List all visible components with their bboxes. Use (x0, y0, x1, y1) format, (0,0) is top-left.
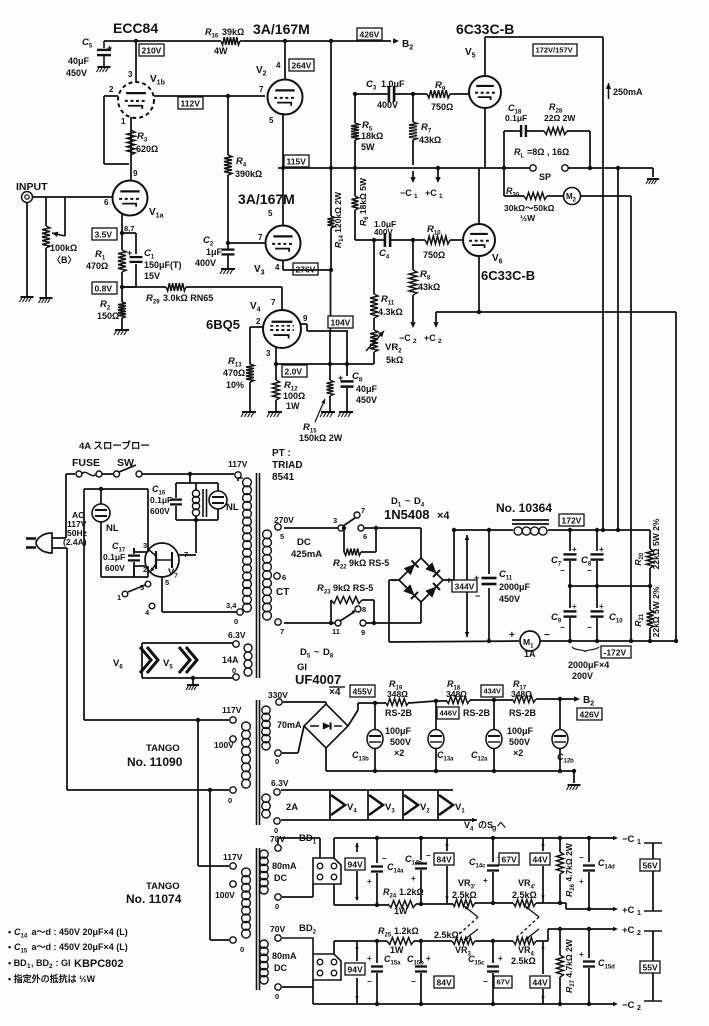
choke 10364 (512, 520, 549, 535)
svg-text:CT: CT (276, 587, 289, 598)
label C5 (66, 37, 93, 78)
svg-text:~: ~ (405, 496, 410, 506)
wire M2 right (581, 196, 632, 641)
svg-text:84V: 84V (437, 978, 452, 988)
svg-text:600V: 600V (150, 506, 170, 516)
label 4A slow-blow (79, 440, 150, 452)
wire V1b grid (104, 96, 129, 164)
svg-text:+: + (579, 877, 584, 886)
label R17 (511, 679, 532, 699)
svg-text:+C: +C (622, 925, 635, 936)
wire r1 bottom rail (334, 884, 388, 905)
svg-text:250mA: 250mA (613, 87, 643, 97)
svg-text:6: 6 (282, 573, 286, 582)
wire pin9 (130, 164, 132, 181)
label 80mA r1 (272, 861, 297, 883)
wire R1 bottom (121, 272, 123, 302)
label 100kohm (50, 243, 77, 265)
terminal T2 100V (214, 736, 236, 750)
label VR4b (511, 945, 536, 966)
capacitor C4 (385, 233, 390, 247)
wire r1 rail mid (416, 903, 452, 905)
terminal T3 100V (215, 881, 236, 900)
wire V5 grid (450, 93, 469, 95)
svg-text:150μF(T): 150μF(T) (144, 260, 182, 270)
terminal PT 63 (233, 641, 239, 647)
svg-text:+: + (579, 950, 584, 959)
svg-text:のS: のS (478, 820, 493, 830)
svg-text:1: 1 (637, 839, 641, 846)
svg-text:3: 3 (333, 516, 337, 525)
svg-text:1W: 1W (390, 945, 404, 955)
wire 6 to bridge (364, 528, 421, 558)
label C13b (352, 750, 369, 763)
resistor R12 (273, 364, 280, 411)
label V7 pins (143, 541, 188, 587)
wire bridge neg (326, 748, 574, 771)
svg-text:NL: NL (226, 502, 239, 513)
capacitor C18 (521, 125, 526, 137)
terminal 0 r2 (275, 984, 281, 1001)
label 330V (268, 690, 288, 700)
capacitor C13b (367, 703, 383, 773)
heater V3h (368, 790, 395, 820)
svg-text:4A スローブロー: 4A スローブロー (79, 440, 150, 452)
wire 7 to sw2 (284, 622, 335, 624)
label pin2 V1b (109, 85, 114, 94)
node C13b top (373, 701, 377, 705)
svg-text:0: 0 (232, 666, 236, 675)
label R28 (544, 102, 576, 123)
T3 core (257, 848, 260, 990)
svg-text:−C: −C (622, 1000, 635, 1011)
wire bridge bottom (420, 602, 422, 623)
contact 3 (333, 516, 344, 531)
svg-text:100V: 100V (215, 890, 235, 900)
label C9 (551, 612, 562, 625)
svg-text:+: + (474, 573, 479, 583)
resistor R8 (409, 240, 417, 328)
svg-text:7: 7 (280, 627, 284, 636)
svg-text:40μF: 40μF (68, 56, 90, 66)
wire cathode 364 line (274, 363, 374, 365)
box 56V (640, 859, 660, 871)
resistor R16 (221, 37, 240, 45)
wire C1 bottom (122, 264, 136, 287)
contact 11 (332, 620, 341, 636)
label pin87 (124, 224, 134, 233)
label +C1 (425, 188, 443, 200)
svg-text:6C33C-B: 6C33C-B (481, 268, 535, 283)
svg-text:390kΩ: 390kΩ (235, 169, 262, 179)
svg-text:620Ω: 620Ω (136, 144, 158, 154)
meter M2 (564, 188, 581, 205)
capacitor C1 (127, 248, 143, 262)
resistor R28 (544, 128, 567, 135)
resistor R17 (494, 696, 560, 703)
note C15 (8, 942, 128, 955)
svg-text:3,4: 3,4 (226, 601, 237, 610)
label D5-D8 (300, 647, 334, 660)
svg-text:200V: 200V (572, 671, 593, 681)
svg-text:0.1μF: 0.1μF (150, 495, 172, 505)
resistor R27 (557, 927, 564, 1006)
dash gang VR3 (455, 917, 478, 938)
wire BD2 in top (282, 938, 313, 954)
terminal T2 63 (274, 789, 280, 795)
wire mid 586 (568, 584, 652, 588)
svg-text:80mA: 80mA (272, 861, 297, 871)
svg-text:70mA: 70mA (277, 720, 302, 730)
svg-text:+: + (411, 874, 416, 883)
label UF4007 (295, 672, 341, 687)
svg-text:5: 5 (165, 578, 169, 587)
label 1N5408 (384, 507, 450, 522)
svg-text:−C: −C (400, 188, 412, 198)
label R25 (378, 926, 419, 955)
label VR2 (385, 342, 403, 365)
box 426V bot (577, 708, 602, 720)
wire bridge minus (389, 580, 519, 642)
wire V5 cathode (484, 108, 486, 168)
svg-text:−: − (544, 630, 550, 641)
label 70V r1 (270, 834, 285, 844)
T3 coil r1 (260, 850, 268, 894)
note BD (8, 958, 124, 970)
label pin1 V1b (121, 117, 126, 126)
box 3.5V (92, 228, 117, 240)
svg-text:2: 2 (637, 930, 641, 937)
svg-text:344V: 344V (455, 582, 475, 592)
label NL left (106, 523, 119, 534)
label 6BQ5 (206, 317, 240, 332)
svg-text:426V: 426V (360, 30, 380, 40)
node 454 (452, 528, 456, 532)
label 6C33C-B top (456, 21, 514, 37)
svg-text:1: 1 (117, 593, 121, 602)
svg-text:~: ~ (314, 647, 319, 657)
svg-text:+: + (367, 877, 372, 886)
label pin2 V4 (256, 317, 261, 326)
wire 618 down (617, 168, 619, 530)
label -C1 (400, 188, 418, 200)
svg-text:1.2kΩ: 1.2kΩ (399, 887, 424, 897)
label C8b (581, 555, 592, 568)
box 67V r2 (494, 976, 512, 988)
label 70mA (277, 720, 302, 730)
T2 330V coil (262, 706, 270, 750)
label C14b (405, 854, 422, 867)
label C15d (598, 958, 615, 971)
svg-text:No. 11074: No. 11074 (126, 892, 182, 906)
svg-text:• 指定外の抵抗は ½W: • 指定外の抵抗は ½W (8, 973, 96, 984)
wire r2 rail mid (414, 940, 452, 942)
terminal 330V (276, 699, 282, 705)
capacitor C12b (552, 699, 568, 773)
resistor R15 (327, 331, 334, 411)
node +C1 (436, 166, 440, 170)
label 6C33C-B bot (481, 268, 535, 283)
heater V5 (179, 647, 197, 673)
svg-text:0: 0 (275, 992, 279, 1001)
svg-text:5: 5 (269, 116, 274, 125)
wire 270V to sw (284, 527, 338, 529)
svg-text:TANGO: TANGO (146, 743, 180, 754)
terminal T2 p0 (228, 787, 236, 805)
wire r1 rail end (536, 903, 618, 911)
wire line115 to right (278, 167, 378, 169)
node rail 115V (329, 166, 333, 170)
capacitor C14c (483, 836, 502, 905)
ground input (20, 297, 34, 302)
capacitor C17 (128, 548, 140, 577)
svg-text:3A/167M: 3A/167M (238, 191, 295, 207)
T2 core (257, 700, 260, 825)
label VR4p (512, 878, 537, 900)
svg-text:425mA: 425mA (291, 549, 322, 560)
box 112V (178, 97, 203, 109)
wire +C1 stub (435, 168, 440, 183)
rheostat VR3p (452, 900, 478, 918)
svg-text:100V: 100V (214, 740, 234, 750)
svg-text:DC: DC (297, 537, 311, 548)
node 597 top (595, 528, 599, 532)
label SW (117, 457, 134, 469)
label heater V5 (163, 658, 173, 671)
wire C16 block bottom (176, 518, 218, 553)
potentiometer 100k (42, 197, 65, 297)
label R19 (387, 679, 408, 699)
resistor R7 (409, 94, 417, 165)
svg-text:80mA: 80mA (272, 951, 297, 961)
label R23 (317, 583, 373, 596)
label C12a (471, 750, 488, 763)
terminal T2 0 (274, 818, 280, 835)
box 276V (293, 263, 318, 275)
wire BD1 in bottom (282, 884, 313, 897)
svg-text:• BD: • BD (8, 958, 27, 968)
wire R29 right (186, 287, 282, 310)
coil NL (192, 483, 206, 520)
wire sw to PT (142, 473, 234, 475)
capacitor C14a (367, 836, 387, 907)
wire C4 line (355, 239, 425, 241)
svg-text:22kΩ 5W 2%: 22kΩ 5W 2% (651, 518, 661, 569)
label R27 (564, 938, 576, 993)
svg-text:94V: 94V (348, 860, 363, 870)
svg-text:+: + (446, 576, 452, 587)
svg-text:6C33C-B: 6C33C-B (456, 21, 514, 37)
ground C8 (338, 412, 353, 417)
wire V6 plate (478, 168, 480, 224)
svg-text:: GI: : GI (53, 958, 73, 968)
wire 11074 117V link (196, 718, 229, 866)
ground C2 (220, 269, 235, 274)
svg-text:•: • (8, 942, 14, 952)
label R5 (361, 120, 383, 152)
svg-text:264V: 264V (292, 61, 312, 71)
svg-text:150kΩ 2W: 150kΩ 2W (299, 433, 343, 443)
label pin7 V4 (250, 298, 276, 314)
svg-text:+: + (483, 876, 488, 885)
svg-text:−C: −C (622, 834, 635, 845)
node V3 plate (281, 166, 285, 170)
svg-text:470Ω: 470Ω (223, 368, 245, 378)
terminal PT 34 (226, 601, 243, 626)
svg-text:446V: 446V (440, 709, 458, 718)
terminal 0 r1 (275, 894, 281, 911)
wire bridge plus (443, 530, 513, 580)
node cathode C1 (120, 231, 124, 235)
label R26 (564, 842, 576, 897)
capacitor C2 (222, 245, 235, 268)
svg-text:7: 7 (271, 298, 276, 307)
capacitor C16 (170, 483, 182, 520)
svg-text:ECC84: ECC84 (113, 20, 158, 36)
svg-text:1: 1 (439, 193, 443, 200)
label R22 (333, 558, 389, 571)
tube V1a (113, 181, 148, 216)
svg-text:−: − (579, 853, 584, 862)
label V1b (150, 74, 165, 87)
wire plug bottom (52, 548, 67, 790)
svg-text:UF4007: UF4007 (295, 672, 341, 687)
label 270V (274, 515, 294, 525)
svg-text:2: 2 (637, 1005, 641, 1012)
svg-text:0: 0 (234, 617, 238, 626)
box 2.0V (282, 365, 307, 377)
node 603 choke (601, 528, 605, 532)
label VR3b (434, 930, 472, 958)
capacitor C5 (97, 41, 112, 66)
capacitor C8 (338, 331, 354, 411)
label pin6 (104, 198, 109, 207)
svg-text:DC: DC (274, 873, 287, 883)
wire V1b plate (135, 41, 137, 82)
label INPUT (16, 181, 48, 193)
terminal PT 6 (274, 573, 286, 582)
box 172V157V (533, 44, 577, 56)
box 94V r2 (345, 941, 365, 1004)
svg-text:RS-2B: RS-2B (509, 708, 537, 718)
svg-text:0.1μF: 0.1μF (505, 113, 527, 123)
svg-text:434V: 434V (484, 687, 502, 696)
label R6 (358, 177, 370, 226)
label C15c (468, 954, 485, 967)
node V2 plate (283, 39, 287, 43)
lamp NL left (92, 487, 110, 577)
lamp NL right (209, 483, 227, 520)
PT secondary coil (263, 530, 272, 620)
svg-text:2.5kΩ: 2.5kΩ (512, 890, 537, 900)
contact 7t (354, 506, 365, 518)
svg-text:2.0V: 2.0V (285, 367, 303, 377)
node snubber left (502, 166, 506, 170)
svg-text:8,7: 8,7 (124, 224, 134, 233)
svg-text:−: − (411, 977, 416, 986)
contact 5 (140, 581, 151, 592)
plug AC (26, 533, 52, 553)
svg-text:44V: 44V (533, 855, 548, 865)
label R12 (283, 380, 305, 411)
capacitor C15c (483, 939, 503, 1006)
label V1a (149, 207, 164, 220)
svg-text:0: 0 (275, 757, 279, 766)
wire heater row bottom (281, 819, 453, 821)
svg-text:348Ω: 348Ω (387, 689, 408, 699)
wire fuse-sw (102, 473, 113, 475)
svg-text:56V: 56V (643, 861, 658, 871)
svg-text:No. 10364: No. 10364 (496, 501, 552, 515)
label R9 (431, 80, 453, 112)
tube V3 (266, 226, 301, 261)
label R16 value (205, 27, 244, 56)
box 426V top (357, 28, 382, 40)
wire B+ top rail (104, 40, 391, 42)
node 618 speaker (616, 166, 620, 170)
svg-text:9: 9 (303, 314, 308, 323)
svg-text:100kΩ: 100kΩ (50, 243, 77, 253)
svg-text:1.0μF: 1.0μF (381, 79, 405, 89)
svg-text:450V: 450V (66, 68, 87, 78)
wire R29 left (122, 286, 166, 288)
wire r2 rail end (536, 927, 618, 941)
terminal 70V r2 (275, 935, 281, 941)
svg-text:348Ω: 348Ω (511, 689, 532, 699)
box 434V (481, 685, 503, 697)
svg-text:67V: 67V (502, 855, 517, 865)
svg-text:1: 1 (637, 910, 641, 917)
label pin3 V1b (128, 70, 133, 79)
wire V1b cathode (130, 117, 132, 164)
label 80mA r2 (272, 951, 297, 973)
svg-text:a～d : 450V 20μF×4 (L): a～d : 450V 20μF×4 (L) (29, 927, 128, 937)
svg-text:+C: +C (622, 905, 635, 916)
label ECC84 (113, 20, 158, 36)
resistor R29 (166, 283, 186, 291)
svg-text:172V: 172V (562, 516, 582, 526)
svg-text:FUSE: FUSE (72, 457, 100, 469)
label R29 (146, 293, 213, 306)
wire bottom 577 (101, 566, 148, 577)
resistor R14 (328, 216, 335, 228)
wire V6 cathode (478, 256, 480, 312)
svg-text:½W: ½W (520, 213, 536, 223)
node V4 cathode (274, 362, 278, 366)
box -172V (601, 646, 631, 658)
wire r1 rail mid2 (475, 902, 513, 904)
label GI (297, 662, 307, 673)
node 618 choke (616, 528, 620, 532)
label DC425 (291, 537, 322, 560)
svg-text:5: 5 (268, 209, 273, 218)
svg-text:426V: 426V (580, 710, 600, 720)
wire V5 plate (485, 37, 603, 530)
terminal T2 117V (222, 705, 242, 723)
resistor R24 (388, 901, 416, 908)
label 250mA (606, 83, 643, 99)
label C15b (407, 954, 424, 967)
svg-text:5kΩ: 5kΩ (386, 355, 403, 365)
svg-text:1N5408: 1N5408 (384, 507, 430, 522)
svg-text:2000μF: 2000μF (499, 582, 531, 592)
T2 heater coil (262, 794, 270, 818)
label 2A (286, 802, 298, 813)
label C8 (352, 371, 378, 405)
svg-text:9: 9 (361, 628, 365, 637)
label PT 63V (228, 630, 246, 640)
svg-text:3A/167M: 3A/167M (253, 21, 310, 37)
